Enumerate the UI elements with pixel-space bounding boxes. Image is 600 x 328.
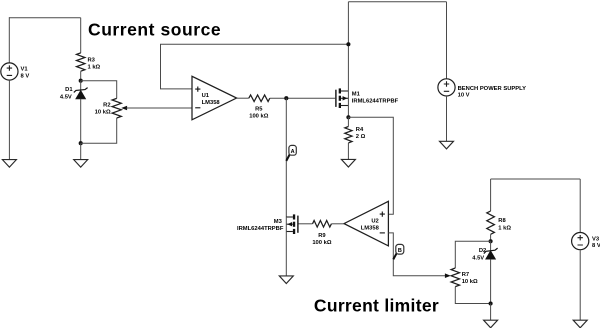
node feedback junction (junction dot)	[346, 42, 350, 46]
wire bench branch down	[446, 2, 448, 79]
svg-text:D1: D1	[65, 87, 73, 93]
wire to ground limiter	[490, 304, 492, 321]
svg-text:IRML6244TRPBF: IRML6244TRPBF	[237, 226, 284, 232]
svg-text:B: B	[398, 248, 402, 254]
wire V1 top to R3 top	[9, 17, 80, 19]
U2 plus input marker	[380, 212, 385, 217]
M3 source lead	[286, 231, 293, 233]
wire bench to ground	[446, 96, 448, 142]
wire R7 bottom return	[455, 287, 490, 304]
wire R9 to M3 gate	[298, 223, 313, 225]
zener diode D2	[484, 241, 498, 303]
svg-text:1 kΩ: 1 kΩ	[88, 64, 101, 70]
R2 wiper arrow	[121, 106, 127, 111]
svg-text:U1: U1	[202, 93, 210, 99]
svg-text:V1: V1	[21, 67, 29, 73]
wire R5 to M1 gate	[270, 97, 335, 99]
svg-text:8 V: 8 V	[21, 74, 30, 80]
svg-text:V3: V3	[592, 236, 600, 242]
M1 drain lead	[341, 90, 349, 92]
svg-text:10 kΩ: 10 kΩ	[95, 110, 111, 116]
zener diode D1	[74, 81, 88, 144]
R7 wiper arrow	[445, 273, 451, 278]
M1 source/body rail	[347, 91, 349, 117]
svg-text:R3: R3	[88, 57, 96, 63]
wire R3 bottom to node	[80, 71, 82, 81]
wire V3 branch lower	[579, 250, 581, 321]
net label B	[393, 244, 404, 259]
net label A	[286, 145, 296, 161]
svg-text:A: A	[291, 149, 295, 155]
node R3/D1/R2 junction (junction dot)	[79, 79, 83, 83]
svg-text:8 V: 8 V	[592, 243, 600, 249]
wire U2 - input to R7 wiper	[388, 233, 445, 276]
wire R2 wiper to U1 inverting input	[127, 107, 193, 109]
svg-text:R9: R9	[318, 233, 326, 239]
wire U2 output to R9	[331, 223, 344, 225]
svg-text:LM358: LM358	[361, 226, 380, 232]
wire R8 to junction	[490, 234, 492, 241]
wire V3 branch upper	[579, 179, 581, 233]
transistor M3 gate bar	[297, 216, 298, 233]
svg-text:100 kΩ: 100 kΩ	[249, 114, 269, 120]
svg-text:LM358: LM358	[202, 100, 221, 106]
op-amp U1	[192, 76, 237, 120]
wire U1 output to R5	[237, 97, 249, 99]
voltage source BENCH POWER SUPPLY	[438, 79, 455, 96]
svg-text:R2: R2	[103, 102, 110, 108]
svg-text:Current source: Current source	[88, 19, 221, 39]
node D2 anode junction (junction dot)	[489, 301, 493, 305]
node R8/D2/R7 junction (junction dot)	[489, 239, 493, 243]
wire junction to ground	[80, 143, 82, 160]
svg-text:Current limiter: Current limiter	[314, 296, 439, 316]
svg-text:M1: M1	[352, 92, 361, 98]
wire M1 source to U2 + input	[348, 117, 393, 214]
svg-text:100 kΩ: 100 kΩ	[312, 240, 332, 246]
transistor M1 gate bar	[335, 90, 336, 107]
svg-text:IRML6244TRPBF: IRML6244TRPBF	[352, 99, 399, 105]
node M1 source junction (junction dot)	[346, 115, 350, 119]
svg-text:D2: D2	[479, 248, 486, 254]
wire R4 to ground	[347, 143, 349, 160]
voltage source V1	[1, 63, 18, 80]
wire junction to R7 top	[455, 241, 490, 268]
svg-text:10 kΩ: 10 kΩ	[462, 279, 478, 285]
resistor R5	[249, 95, 270, 102]
resistor R3	[77, 53, 85, 71]
svg-text:R5: R5	[255, 107, 263, 113]
svg-text:4.5V: 4.5V	[472, 256, 484, 262]
M1 channel segments	[339, 88, 341, 93]
svg-text:M3: M3	[274, 219, 283, 225]
op-amp U2	[344, 201, 388, 246]
resistor R9	[313, 221, 332, 228]
svg-text:R7: R7	[462, 272, 469, 278]
ground GND D1/R2	[74, 160, 88, 168]
ground GND bench	[440, 141, 454, 149]
node D1 anode / ground junction (junction dot)	[79, 141, 83, 145]
node node A junction (junction dot)	[284, 96, 288, 100]
wire node A vertical	[285, 98, 287, 217]
wire V1 branch lower	[8, 80, 10, 160]
svg-text:4.5V: 4.5V	[60, 95, 72, 101]
M1 body lead with arrow	[341, 97, 349, 99]
ground GND M3	[279, 276, 293, 284]
U1 plus input marker	[195, 87, 200, 92]
wire limiter top rail	[491, 178, 581, 180]
potentiometer R2	[112, 98, 121, 118]
svg-text:U2: U2	[371, 219, 378, 225]
ground GND R4	[341, 159, 355, 167]
svg-text:R8: R8	[498, 218, 506, 224]
wire V1 branch upper	[8, 17, 10, 63]
wire R8 branch upper	[490, 179, 492, 211]
wire R3 branch upper	[80, 18, 82, 53]
M1 source lead	[341, 105, 349, 107]
M3 source/body rail	[285, 217, 287, 232]
wire M1 drain rail up	[347, 2, 349, 91]
svg-text:2 Ω: 2 Ω	[356, 134, 366, 140]
wire M3 source to ground	[285, 232, 287, 277]
wire R2 bottom return	[81, 118, 117, 143]
ground GND V1	[2, 160, 16, 168]
M3 channel segments	[293, 214, 295, 219]
ground GND V3	[573, 320, 587, 328]
M3 body lead with arrow	[286, 223, 293, 225]
resistor R8	[487, 211, 495, 234]
potentiometer R7	[451, 268, 459, 287]
svg-text:BENCH POWER SUPPLY: BENCH POWER SUPPLY	[458, 86, 527, 92]
svg-text:10 V: 10 V	[458, 92, 470, 98]
svg-text:R4: R4	[356, 127, 364, 133]
U1 minus input marker	[195, 107, 200, 109]
U2 minus input marker	[380, 232, 385, 234]
resistor R4	[347, 117, 349, 126]
ground GND limiter	[484, 320, 498, 328]
wire top rail	[348, 1, 446, 3]
wire node to R2 top	[81, 81, 117, 99]
M3 drain lead	[286, 216, 293, 218]
svg-text:1 kΩ: 1 kΩ	[498, 226, 511, 232]
wire U1 + feedback	[161, 44, 349, 89]
voltage source V3	[572, 233, 589, 250]
